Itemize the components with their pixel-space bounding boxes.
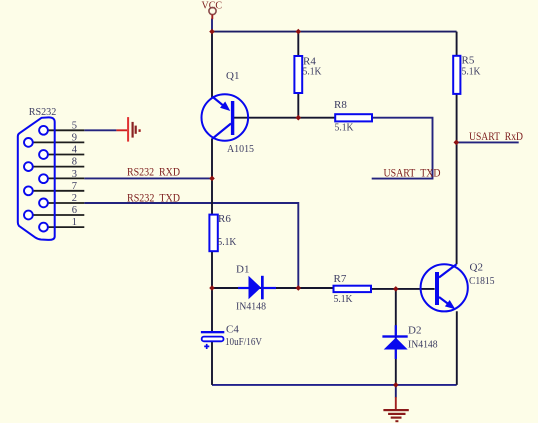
svg-text:8: 8: [72, 157, 77, 168]
svg-text:C4: C4: [226, 324, 239, 336]
svg-text:Q1: Q1: [226, 70, 239, 82]
svg-text:USART RxD: USART RxD: [469, 129, 523, 143]
svg-text:5.1K: 5.1K: [462, 66, 481, 78]
svg-text:Q2: Q2: [470, 262, 483, 274]
svg-text:5.1K: 5.1K: [217, 236, 236, 248]
svg-text:10uF/16V: 10uF/16V: [225, 336, 262, 348]
svg-text:6: 6: [72, 205, 77, 216]
svg-text:5.1K: 5.1K: [335, 122, 354, 134]
svg-text:R7: R7: [334, 273, 347, 285]
svg-text:IN4148: IN4148: [236, 300, 266, 312]
svg-text:1: 1: [72, 217, 77, 228]
svg-text:5.1K: 5.1K: [334, 293, 353, 305]
svg-text:3: 3: [72, 169, 77, 180]
svg-text:RS232 RXD: RS232 RXD: [127, 165, 180, 179]
svg-text:C1815: C1815: [469, 275, 495, 287]
svg-text:4: 4: [72, 145, 78, 156]
svg-text:A1015: A1015: [227, 143, 254, 155]
svg-text:R8: R8: [334, 99, 347, 111]
svg-text:5.1K: 5.1K: [303, 66, 322, 78]
svg-text:IN4148: IN4148: [408, 338, 438, 350]
svg-text:D2: D2: [408, 325, 421, 337]
svg-text:7: 7: [72, 181, 77, 192]
svg-text:D1: D1: [236, 264, 249, 276]
svg-text:RS232: RS232: [29, 106, 57, 118]
svg-text:5: 5: [72, 120, 77, 131]
svg-text:RS232 TXD: RS232 TXD: [127, 190, 180, 204]
svg-text:USART TXD: USART TXD: [384, 166, 441, 180]
svg-text:R6: R6: [218, 213, 231, 225]
svg-text:VCC: VCC: [202, 0, 223, 12]
svg-text:9: 9: [72, 133, 77, 144]
svg-text:2: 2: [72, 193, 77, 204]
